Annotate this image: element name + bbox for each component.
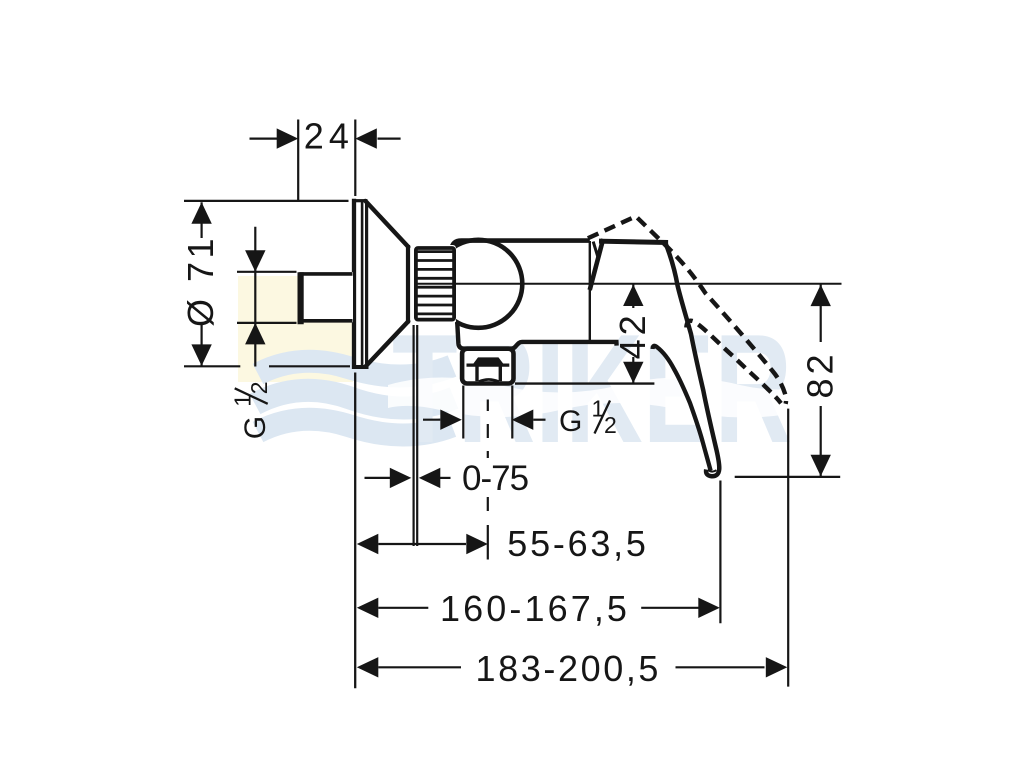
svg-text:2: 2 — [604, 412, 617, 438]
dimension 183-200,5: line + arrows — [357, 657, 379, 677]
handle base left edge — [590, 241, 602, 288]
handle base top edge — [602, 241, 666, 242]
outlet nut inner horizontal line — [467, 364, 510, 367]
dimension 183-200,5: right extension line — [787, 409, 789, 687]
handle raised position dashed lower edge — [686, 321, 781, 403]
centerline main axis — [417, 283, 842, 285]
nipple top edge — [299, 272, 352, 276]
outlet nut G1/2 (white fill) — [460, 346, 516, 385]
dimension 55-63,5: line + arrows — [357, 534, 379, 554]
dimension 82: bottom extension line — [735, 476, 841, 478]
dimension Ø71: bottom extension line (two segments) — [184, 365, 240, 367]
dimension Ø71: top extension line — [184, 200, 349, 202]
svg-text:G: G — [239, 416, 272, 439]
svg-text:160-167,5: 160-167,5 — [440, 588, 630, 629]
escutcheon cone bottom edge — [365, 321, 408, 366]
body underside step and right ledge — [512, 342, 617, 349]
knurl ridges — [417, 252, 454, 314]
dimension outlet G1/2: label — [559, 396, 617, 438]
dimension 0-75: line + arrows — [365, 477, 393, 479]
handle raised position dashed upper edge — [588, 216, 786, 403]
svg-text:55-63,5: 55-63,5 — [507, 523, 648, 564]
escutcheon plate left face line — [352, 199, 356, 369]
svg-text:0-75: 0-75 — [462, 459, 528, 498]
body-handle joint line — [589, 241, 591, 342]
escutcheon cover line B — [361, 201, 364, 367]
watermark wave logo — [255, 361, 454, 435]
dimension nipple G1/2: dimension line + arrows — [254, 227, 256, 367]
dimension outlet G1/2: line + arrows — [423, 419, 440, 421]
dimension 24: left extension line — [297, 120, 299, 201]
dimension nipple G1/2: bottom extension line — [237, 322, 297, 324]
escutcheon plate bottom edge — [352, 365, 369, 369]
handle lever inner edge — [653, 346, 711, 471]
valve ball body — [434, 240, 522, 328]
escutcheon wall plate and cone (white fill) — [352, 200, 408, 367]
dimension outlet G1/2: left extension line — [462, 386, 464, 439]
outlet nut bottom face arc — [479, 379, 499, 381]
wall face long extension line — [354, 373, 356, 689]
outlet nut right divider — [499, 366, 502, 381]
escutcheon neck edge — [406, 245, 410, 323]
outlet nut cap (chamfered, filled) — [474, 359, 502, 365]
dimension nipple G1/2: top extension line — [237, 271, 297, 273]
watermark pale yellow tint box — [238, 276, 353, 382]
svg-text:Ø 71: Ø 71 — [180, 235, 221, 327]
body underside lower ledge — [457, 322, 511, 349]
watermark white wave band over letters — [388, 378, 800, 418]
handle lever outer edge — [665, 242, 719, 476]
nipple left end face (thick) — [298, 272, 304, 324]
svg-text:82: 82 — [799, 350, 840, 398]
dimension 42: dimension line + arrows — [632, 284, 634, 308]
dimension 82: dimension line + arrows — [820, 285, 822, 343]
svg-text:24: 24 — [304, 115, 354, 156]
knurled ring (white fill) — [414, 245, 456, 325]
dimension nipple G1/2: label — [230, 382, 272, 440]
outlet nut left divider — [475, 366, 478, 381]
dimension 42: bottom extension line — [515, 382, 654, 384]
escutcheon cover line C — [365, 202, 368, 367]
handle lever tip cap line — [708, 470, 717, 472]
dimension 160-167,5: line + arrows — [357, 598, 379, 618]
outlet vertical centerline (dashed) — [487, 400, 489, 412]
outlet nut outline — [462, 349, 513, 384]
body bar top edge — [452, 241, 590, 249]
handle base and lever (white fill) — [590, 241, 719, 476]
escutcheon plate top edge — [352, 199, 368, 202]
svg-text:G: G — [559, 405, 582, 438]
svg-text:42: 42 — [612, 311, 653, 359]
svg-text:2: 2 — [246, 382, 272, 395]
escutcheon cone top edge — [365, 201, 408, 247]
nipple G1/2 connector (white fill) — [298, 272, 354, 322]
dimension 24: line + arrows — [250, 138, 278, 140]
joint notch V — [593, 241, 602, 256]
svg-text:183-200,5: 183-200,5 — [476, 648, 662, 689]
dimension Ø71: dimension line — [201, 202, 203, 238]
nipple bottom edge — [299, 319, 352, 323]
dimension 24: right extension line — [354, 120, 356, 197]
dimension 160-167,5: right extension line — [719, 481, 721, 624]
valve body bar (white fill) — [452, 241, 590, 346]
dimension outlet G1/2: right extension line — [511, 386, 513, 439]
dimension 0-75: double extension lines — [413, 325, 415, 546]
